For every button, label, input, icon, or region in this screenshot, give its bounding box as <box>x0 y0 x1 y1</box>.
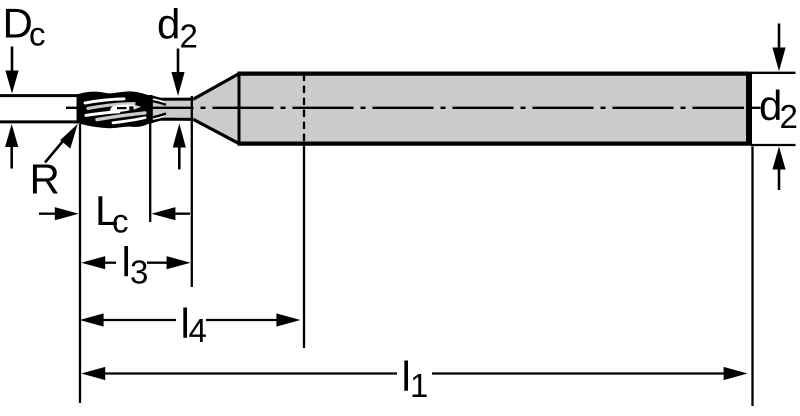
svg-text:R: R <box>30 156 60 203</box>
l4 dimension line with inward arrows <box>80 313 301 326</box>
Dc lower arrow <box>5 124 18 169</box>
svg-text:1: 1 <box>410 367 428 404</box>
flute left end bar <box>77 95 82 124</box>
svg-text:3: 3 <box>130 254 148 291</box>
tool tip cylinder (Dc section) bottom edge <box>0 120 80 123</box>
extension line flute end (x=150) <box>149 123 151 222</box>
svg-text:d: d <box>157 1 180 48</box>
flute white sliver upper-left <box>85 99 124 103</box>
flute gray wedge right of land <box>135 106 141 110</box>
shank bottom edge <box>238 142 750 146</box>
neck relief white wedge bottom <box>153 115 165 120</box>
shank top edge <box>238 71 750 75</box>
flute white sliver bottom-right <box>113 118 145 123</box>
d2 right upper arrow <box>772 24 785 72</box>
flute right end face <box>149 95 152 123</box>
extension line l1 right (x=752.5) <box>751 147 753 407</box>
l1 dimension line with inward arrows <box>81 367 747 380</box>
flute white sliver lower-left <box>86 112 119 116</box>
R leader arrow <box>45 124 78 163</box>
l3 dimension line with inward arrows <box>81 256 190 269</box>
center line dash inside flute land <box>117 107 127 109</box>
center line stub at right end <box>750 107 761 109</box>
center line <box>66 107 744 109</box>
center line dot inside flute land <box>129 106 133 110</box>
svg-text:c: c <box>29 16 46 53</box>
flute gray sliver upper <box>88 104 134 109</box>
taper cone top edge <box>193 74 239 100</box>
shank + taper + neck gray profile <box>151 74 749 144</box>
neck relief white wedge top <box>153 98 165 103</box>
extension line l4 solid below shank <box>303 145 305 348</box>
extension line left (x=80) <box>79 124 81 403</box>
Dc upper arrow <box>5 47 18 94</box>
svg-text:4: 4 <box>189 312 207 349</box>
d2 neck upper arrow <box>171 49 184 97</box>
Lc dimension right outside arrow <box>151 207 190 220</box>
neck relief line top <box>153 101 167 105</box>
flute section body (black base) <box>78 93 152 127</box>
flute gray sliver lower <box>97 113 145 120</box>
svg-text:c: c <box>112 203 129 240</box>
extension line l4 dashed through shank (x=304) <box>303 74 305 145</box>
cone-shank junction line <box>238 72 241 145</box>
taper cone bottom edge <box>193 119 239 143</box>
extension line neck end (x=191.8) <box>191 96 193 287</box>
Lc dimension left outside arrow <box>39 207 79 220</box>
d2 right lower arrow <box>772 147 785 191</box>
neck top outline <box>151 96 194 99</box>
svg-text:2: 2 <box>780 98 798 135</box>
neck bottom outline <box>151 119 194 122</box>
shank right end face <box>746 72 752 146</box>
flute white land with centerline <box>110 105 141 113</box>
d2 right extension line bottom <box>750 144 796 146</box>
tool tip cylinder (Dc section) top edge <box>0 94 80 97</box>
svg-text:2: 2 <box>180 18 198 55</box>
d2 right extension line top <box>750 72 796 74</box>
neck relief line bottom <box>153 114 167 118</box>
d2 neck lower arrow <box>173 124 186 170</box>
